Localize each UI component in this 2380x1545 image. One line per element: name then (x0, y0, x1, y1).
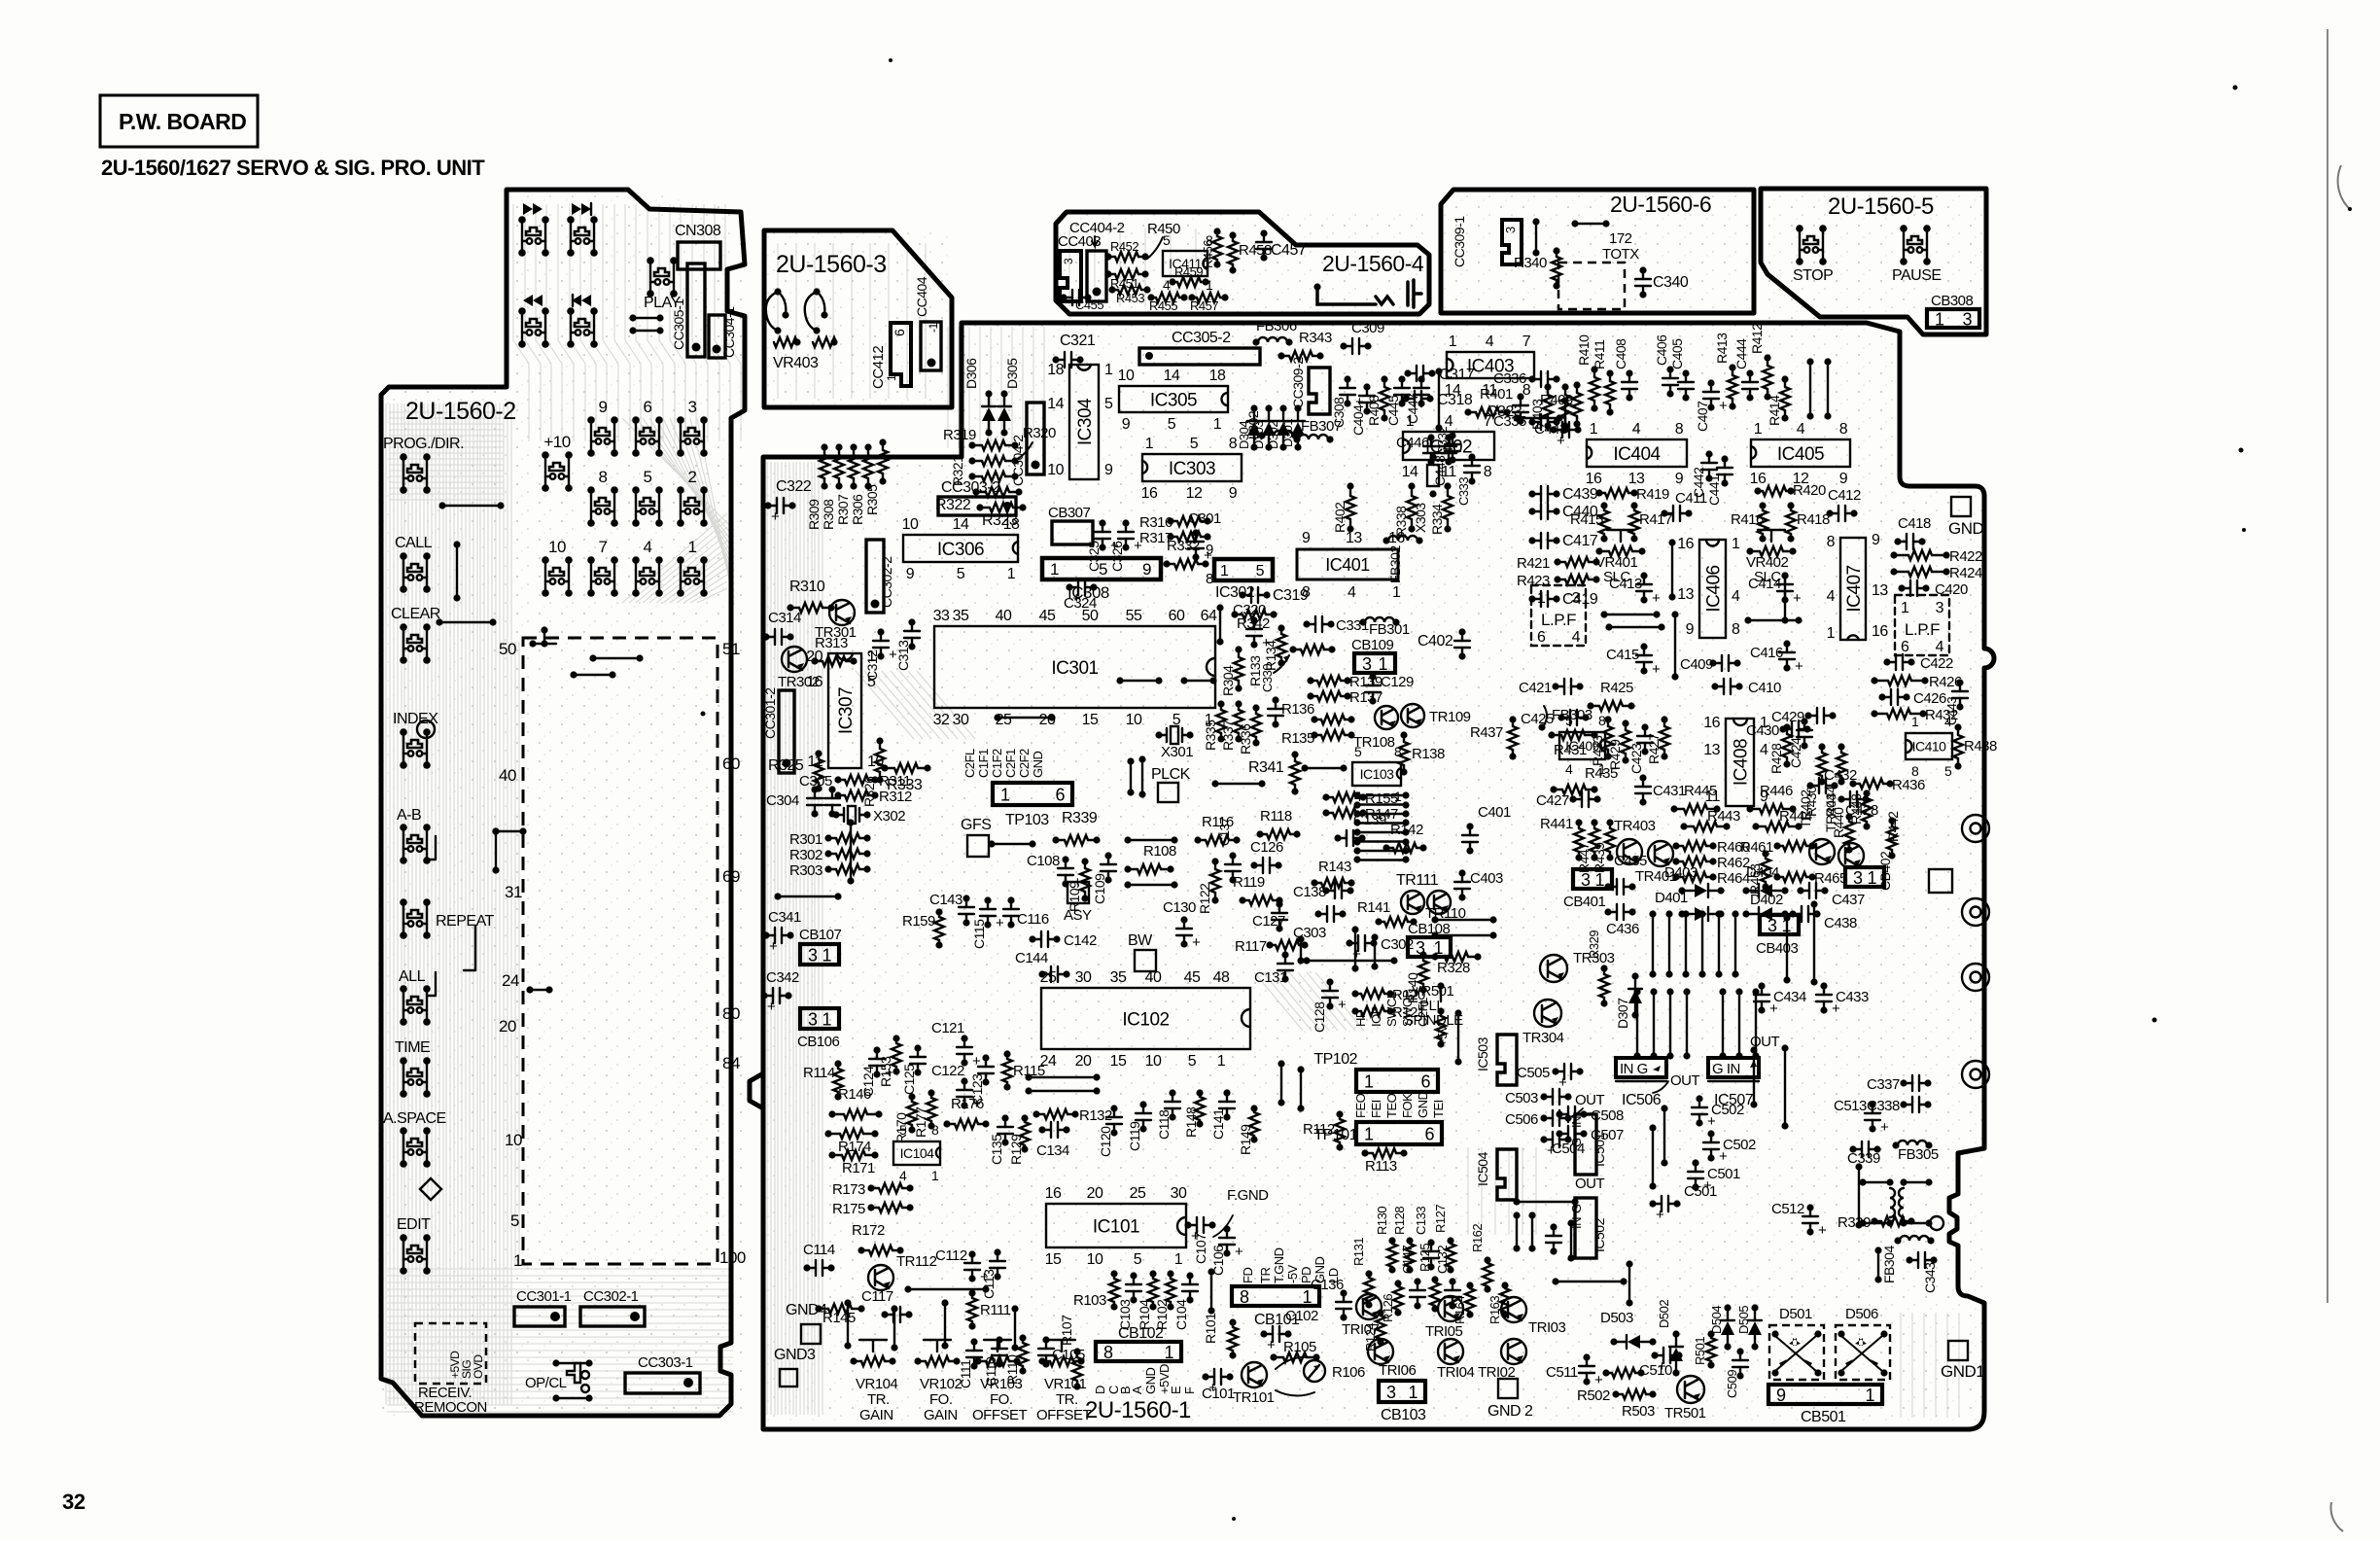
svg-text:CB402: CB402 (1877, 851, 1893, 891)
ic IC308 (1042, 558, 1161, 579)
resistor R113 (1365, 1152, 1373, 1154)
svg-text:VR101: VR101 (1044, 1376, 1087, 1392)
svg-text:6: 6 (892, 329, 907, 336)
resistor R149 (1253, 1108, 1255, 1112)
svg-text:+: + (1793, 590, 1802, 607)
transistor TR401 (1648, 841, 1673, 866)
svg-text:5: 5 (1354, 744, 1362, 759)
resistor R305 (882, 442, 884, 450)
svg-text:+5V: +5V (1435, 1024, 1450, 1046)
svg-text:REPEAT: REPEAT (436, 913, 495, 930)
svg-text:51: 51 (722, 640, 740, 658)
svg-text:R442: R442 (1885, 811, 1901, 842)
svg-text:C405: C405 (1669, 338, 1685, 369)
svg-text:C116: C116 (1017, 911, 1049, 928)
svg-text:FB306: FB306 (1256, 318, 1297, 334)
svg-text:R113: R113 (1365, 1158, 1397, 1175)
svg-text:C433: C433 (1836, 989, 1869, 1005)
connector CB402 (1845, 867, 1884, 887)
svg-text:1: 1 (1145, 436, 1154, 452)
svg-text:D505: D505 (1736, 1306, 1751, 1334)
svg-text:IC404: IC404 (1613, 444, 1661, 465)
svg-text:R419: R419 (1636, 486, 1669, 503)
capacitor C325 (1102, 523, 1103, 532)
potentiometer VR403 (766, 292, 787, 331)
svg-text:R341: R341 (1248, 759, 1284, 776)
svg-text:R308: R308 (821, 499, 836, 530)
svg-text:C412: C412 (1828, 487, 1861, 504)
svg-text:5: 5 (644, 468, 652, 486)
svg-text:R159: R159 (902, 913, 935, 930)
svg-text:3: 3 (808, 1010, 818, 1030)
svg-text:R457: R457 (1190, 298, 1218, 313)
wire w14 (1120, 680, 1159, 682)
capacitor C118 (1172, 1093, 1173, 1102)
resistor R155 (1326, 796, 1333, 798)
diode D404 (1746, 890, 1785, 892)
capacitor C502 (1710, 1134, 1712, 1142)
resistor R138 (1403, 735, 1405, 742)
svg-text:1: 1 (822, 1010, 831, 1030)
svg-text:R445: R445 (1684, 783, 1717, 799)
capacitor C508 (1559, 1113, 1568, 1115)
svg-text:1: 1 (1449, 334, 1457, 350)
wire w35 (847, 1303, 849, 1346)
ic IC301 (934, 626, 1215, 708)
svg-text:IC103: IC103 (1360, 766, 1395, 782)
capacitor C324 (1069, 586, 1078, 588)
svg-text:5: 5 (1168, 416, 1176, 433)
connector CB501 (1768, 1385, 1882, 1404)
transistor TR112 (868, 1265, 893, 1290)
trimmer VR402 (1750, 550, 1760, 552)
capacitor C423 (1644, 727, 1646, 736)
svg-text:IC306: IC306 (937, 540, 984, 560)
svg-text:4: 4 (1944, 714, 1952, 729)
svg-text:C423: C423 (1628, 743, 1644, 774)
svg-text:3: 3 (1503, 227, 1518, 233)
svg-text:4: 4 (1572, 629, 1581, 646)
svg-text:32: 32 (933, 712, 950, 728)
svg-text:R415: R415 (1570, 511, 1603, 528)
capacitor C428 (1841, 798, 1850, 800)
svg-text:E: E (1169, 1386, 1183, 1394)
svg-text:R408: R408 (1366, 395, 1382, 426)
svg-text:2U-1560-2: 2U-1560-2 (405, 398, 516, 425)
resistor R412 (1767, 358, 1768, 366)
svg-text:10: 10 (1047, 462, 1064, 478)
trimmer VR103 (978, 1360, 986, 1362)
svg-text:172: 172 (1609, 230, 1632, 247)
svg-text:R307: R307 (835, 494, 851, 525)
resistor R308 (838, 447, 840, 455)
svg-text:R435: R435 (1585, 765, 1618, 782)
resistor R129 (1024, 1118, 1026, 1122)
capacitor C326 (1125, 523, 1127, 532)
svg-text:R171: R171 (842, 1160, 875, 1176)
svg-text:R119: R119 (1233, 874, 1265, 891)
svg-text:C135: C135 (989, 1134, 1004, 1165)
svg-text:C420: C420 (1935, 581, 1968, 598)
svg-text:TR111: TR111 (1396, 872, 1439, 889)
resistor R462 (1676, 860, 1683, 862)
svg-text:IC405: IC405 (1777, 444, 1824, 465)
svg-text:F: F (1182, 1387, 1197, 1394)
connector IC507 (1708, 1058, 1759, 1077)
capacitor C417 (1532, 540, 1541, 542)
wire w34 (1858, 1167, 1860, 1225)
resistor R109 (1084, 861, 1086, 868)
capacitor C439 (1532, 493, 1541, 495)
resistor R124 (1380, 1313, 1382, 1316)
svg-text:C117: C117 (861, 1288, 893, 1305)
transistor TRI04 (1438, 1339, 1463, 1364)
svg-text:1: 1 (1213, 416, 1222, 433)
capacitor C135 (1004, 1118, 1006, 1127)
svg-text:C335: C335 (1493, 413, 1526, 430)
svg-text:R462: R462 (1717, 855, 1750, 871)
diode D402 (1746, 913, 1785, 915)
svg-text:C502: C502 (1723, 1137, 1756, 1153)
square pad right (1929, 869, 1952, 893)
svg-text:C108: C108 (1027, 853, 1060, 869)
trimmer VR501 part (1440, 1011, 1442, 1016)
resistor R110 (1022, 1338, 1024, 1343)
capacitor C318 (1406, 398, 1415, 400)
svg-text:IC303: IC303 (1169, 459, 1215, 479)
ic IC103 (1352, 762, 1401, 786)
svg-text:R334: R334 (1429, 504, 1445, 535)
svg-text:C113: C113 (981, 1269, 997, 1299)
svg-text:C115: C115 (971, 919, 987, 949)
svg-text:40: 40 (499, 766, 516, 785)
svg-text:R441: R441 (1540, 816, 1573, 832)
svg-text:C122: C122 (931, 1063, 964, 1079)
capacitor C426 (1882, 696, 1891, 698)
svg-text:8: 8 (1240, 1287, 1249, 1307)
svg-text:8: 8 (599, 468, 608, 486)
svg-text:R427: R427 (1646, 733, 1662, 764)
svg-text:D504: D504 (1709, 1306, 1724, 1334)
diode D502 (1675, 1334, 1677, 1373)
svg-text:1: 1 (1000, 786, 1010, 805)
capacitor C109 (1107, 856, 1109, 864)
svg-text:R173: R173 (832, 1181, 865, 1198)
svg-text:IC502: IC502 (1592, 1217, 1607, 1252)
connector TP101 (1356, 1122, 1442, 1144)
resistor R337 (1238, 704, 1240, 710)
button REW (521, 311, 523, 344)
svg-text:C128: C128 (1312, 1001, 1327, 1033)
svg-text:R117: R117 (1235, 938, 1267, 955)
svg-text:1: 1 (1901, 600, 1909, 616)
svg-text:IC501: IC501 (1592, 1132, 1607, 1167)
svg-text:+: + (1192, 934, 1201, 951)
capacitor C333 (1471, 457, 1473, 466)
svg-text:CB106: CB106 (797, 1034, 840, 1050)
svg-text:P.W. BOARD: P.W. BOARD (119, 109, 246, 134)
svg-text:R453: R453 (1116, 291, 1144, 305)
svg-text:CB401: CB401 (1563, 894, 1606, 910)
svg-text:7: 7 (1522, 334, 1531, 350)
ic IC410 (1906, 733, 1952, 759)
svg-text:9: 9 (1776, 1386, 1786, 1405)
svg-text:C427: C427 (1536, 792, 1569, 809)
svg-text:C426: C426 (1913, 690, 1946, 707)
capacitor C419 (1532, 598, 1541, 600)
svg-text:OUT: OUT (1670, 1072, 1700, 1089)
svg-text:R337: R337 (1220, 720, 1236, 751)
svg-text:A-B: A-B (397, 807, 421, 824)
jack J2 (1962, 898, 1989, 926)
display window dashed (523, 638, 717, 1264)
svg-text:10: 10 (1118, 368, 1135, 384)
capacitor C501c (1695, 1163, 1697, 1172)
svg-text:TR.: TR. (867, 1391, 890, 1408)
svg-text:D307: D307 (1615, 998, 1630, 1029)
capacitor C319 (1242, 594, 1251, 596)
svg-text:TP102: TP102 (1313, 1051, 1357, 1068)
ic IC403 (1447, 352, 1534, 378)
resistor R170 (911, 1097, 913, 1102)
scan speckle main board (763, 323, 1984, 1424)
diode D304 (1253, 408, 1255, 447)
resistor R148 (1199, 1093, 1201, 1097)
svg-text:4: 4 (1486, 334, 1494, 350)
svg-text:C313: C313 (895, 640, 911, 671)
svg-text:5: 5 (1188, 1053, 1197, 1070)
resistor R438 (1957, 727, 1959, 735)
svg-text:48: 48 (1213, 969, 1230, 986)
svg-text:C322: C322 (776, 478, 812, 495)
svg-text:IC101: IC101 (1093, 1216, 1139, 1237)
trimmer VR401 (1599, 550, 1609, 552)
capacitor C110 (998, 1340, 1000, 1349)
connector CC302-2 (866, 540, 884, 613)
wire w41 (1280, 1064, 1282, 1103)
svg-text:A.SPACE: A.SPACE (383, 1110, 446, 1127)
resistor R147 (1326, 812, 1333, 814)
svg-text:8: 8 (1598, 713, 1606, 728)
ferrite FB303 (1544, 706, 1547, 725)
wire w8 (1535, 222, 1537, 253)
svg-text:R414: R414 (1767, 395, 1782, 426)
svg-text:R128: R128 (1392, 1207, 1407, 1235)
svg-text:5: 5 (1565, 713, 1573, 728)
svg-text:35: 35 (1110, 969, 1127, 986)
jack J401 (1317, 280, 1421, 307)
svg-text:C411: C411 (1675, 490, 1707, 507)
receiver remocon dashed box (415, 1323, 486, 1384)
svg-text:5: 5 (1134, 1251, 1142, 1268)
svg-text:TR402: TR402 (1798, 790, 1813, 828)
capacitor C104 (1189, 1276, 1191, 1284)
resistor R436 (1853, 783, 1860, 785)
resistor R453 (1112, 289, 1118, 291)
pcb trace texture left board (386, 204, 741, 1412)
svg-text:60: 60 (1169, 608, 1185, 624)
wire hbars (1357, 794, 1406, 796)
wire w36 (1652, 1128, 1654, 1186)
svg-text:C403: C403 (1470, 870, 1503, 887)
svg-text:C301: C301 (1188, 510, 1221, 527)
capacitor C113 (997, 1252, 998, 1261)
svg-text:100: 100 (719, 1248, 746, 1267)
ic IC306 (903, 535, 1018, 562)
transistor TR501 (1677, 1376, 1704, 1403)
svg-text:L.P.F: L.P.F (1541, 611, 1576, 629)
resistor R104 (1152, 1274, 1154, 1279)
svg-text:CB102: CB102 (1118, 1325, 1164, 1342)
svg-text:CC303-2: CC303-2 (941, 479, 1000, 496)
svg-text:+: + (767, 999, 776, 1015)
svg-text:45: 45 (1184, 969, 1201, 986)
capacitor C502b (1698, 1099, 1700, 1107)
svg-text:1: 1 (1104, 362, 1113, 378)
hole pad circle2 (417, 720, 435, 738)
ferrite FB304 (1900, 1236, 1929, 1241)
scan artifact right edge line (2327, 29, 2328, 1303)
capacitor C443c (1959, 683, 1961, 691)
connector CB403 (1760, 915, 1799, 934)
svg-text:FB304: FB304 (1881, 1246, 1897, 1283)
resistor R326 (879, 741, 881, 749)
connector CB103 (1379, 1381, 1425, 1402)
svg-text:D: D (1093, 1386, 1107, 1394)
svg-text:TRI05: TRI05 (1425, 1323, 1463, 1340)
svg-text:5: 5 (510, 1211, 519, 1230)
svg-text:GAIN: GAIN (924, 1407, 958, 1423)
resistor R115 (1006, 1054, 1008, 1059)
svg-text:C321: C321 (1060, 333, 1096, 349)
trimmer VR102 (918, 1360, 926, 1362)
svg-text:C428: C428 (1845, 802, 1878, 819)
ic IC303 (1142, 454, 1242, 481)
capacitor C129 (1372, 677, 1374, 685)
svg-text:64: 64 (1201, 608, 1217, 624)
svg-text:C330: C330 (1260, 664, 1275, 692)
capacitor C103 (1133, 1276, 1135, 1284)
resistor R122 (1214, 861, 1216, 869)
svg-text:R127: R127 (1433, 1205, 1448, 1233)
svg-text:R125: R125 (1417, 1244, 1432, 1272)
ic IC402 (1403, 432, 1494, 460)
svg-text:3: 3 (688, 398, 697, 416)
svg-text:C425: C425 (1521, 711, 1554, 727)
connector CB106 (800, 1008, 839, 1029)
svg-text:C431: C431 (1653, 783, 1686, 799)
ic IC405 (1751, 439, 1850, 467)
svg-text:R402: R402 (1332, 502, 1347, 533)
svg-text:C142: C142 (1064, 932, 1097, 949)
wire w27 (1784, 1048, 1786, 1126)
capacitor C308 (1347, 379, 1348, 388)
svg-text:1: 1 (867, 649, 876, 665)
wire w28 (1663, 1108, 1665, 1163)
resistor R503 (1616, 1393, 1623, 1395)
svg-text:1: 1 (1911, 714, 1919, 729)
svg-text:R306: R306 (850, 494, 865, 525)
wire w20 (1438, 371, 1440, 428)
svg-text:C1F2: C1F2 (990, 749, 1004, 778)
svg-text:VR403: VR403 (773, 355, 819, 371)
svg-text:C2FL: C2FL (962, 749, 977, 778)
capacitor C406 (1669, 369, 1671, 378)
svg-text:2U-1560/1627 SERVO & SIG. PRO.: 2U-1560/1627 SERVO & SIG. PRO. UNIT (101, 156, 485, 180)
transistor TR301 (829, 600, 855, 625)
trimmer VR101 (1042, 1360, 1050, 1362)
capacitor C330 (1275, 700, 1277, 709)
svg-text:GND: GND (1143, 1368, 1158, 1395)
wire w31 (1210, 1272, 1212, 1311)
resistor R424 (1894, 571, 1908, 573)
capacitor C444 (1749, 373, 1751, 382)
svg-text:R332: R332 (1167, 538, 1200, 554)
svg-text:R149: R149 (1238, 1124, 1253, 1155)
svg-text:R131: R131 (1351, 1238, 1366, 1266)
svg-text:1: 1 (931, 1168, 939, 1183)
capacitor C119 (1142, 1105, 1144, 1113)
svg-text:1: 1 (1760, 715, 1768, 731)
svg-text:CB403: CB403 (1756, 940, 1799, 957)
resistor R408 (1383, 379, 1385, 387)
svg-text:R309: R309 (806, 499, 822, 530)
svg-text:C444: C444 (1733, 338, 1749, 369)
svg-text:2U-1560-4: 2U-1560-4 (1322, 251, 1424, 276)
capacitor C332 (1452, 436, 1453, 444)
svg-text:CC404: CC404 (914, 276, 929, 317)
resistor R402b (1564, 387, 1566, 395)
svg-text:R465: R465 (1814, 870, 1847, 887)
resistor R108b (1753, 1050, 1755, 1105)
svg-text:R132: R132 (1079, 1107, 1112, 1124)
svg-text:C434: C434 (1773, 989, 1806, 1005)
svg-text:C511: C511 (1546, 1364, 1578, 1381)
ic IC406 (1699, 540, 1726, 638)
svg-text:C407: C407 (1695, 401, 1710, 432)
diode D505 (1754, 1308, 1756, 1347)
svg-text:9: 9 (1206, 542, 1213, 558)
capacitor C404 (1366, 387, 1368, 396)
svg-text:R418: R418 (1797, 511, 1830, 528)
svg-text:STOP: STOP (1793, 267, 1833, 284)
svg-text:R411: R411 (1592, 339, 1607, 369)
button PLAY (649, 261, 651, 294)
resistor R105 (1274, 1356, 1283, 1358)
svg-text:C436: C436 (1606, 921, 1639, 937)
label GND top right (1951, 497, 1971, 516)
svg-text:15: 15 (1045, 1251, 1062, 1268)
svg-text:C141: C141 (1210, 1108, 1226, 1140)
wire w30 (1354, 930, 1356, 968)
svg-text:8: 8 (1394, 744, 1402, 759)
svg-text:10: 10 (902, 516, 919, 533)
connector CN308 (678, 242, 720, 269)
svg-text:C309: C309 (1351, 320, 1384, 336)
svg-text:40: 40 (1145, 969, 1162, 986)
resistor R427 (1663, 720, 1665, 726)
svg-text:1: 1 (1732, 536, 1740, 552)
svg-text:8: 8 (1103, 1343, 1113, 1362)
svg-text:C505: C505 (1517, 1065, 1550, 1081)
wire w17 (992, 843, 1032, 845)
capacitor C124 (876, 1050, 878, 1059)
svg-text:3: 3 (1572, 590, 1581, 607)
svg-text:C1F1: C1F1 (976, 749, 991, 778)
svg-text:R106: R106 (1332, 1364, 1365, 1381)
svg-text:C417: C417 (1562, 533, 1598, 549)
svg-text:9: 9 (906, 566, 915, 582)
